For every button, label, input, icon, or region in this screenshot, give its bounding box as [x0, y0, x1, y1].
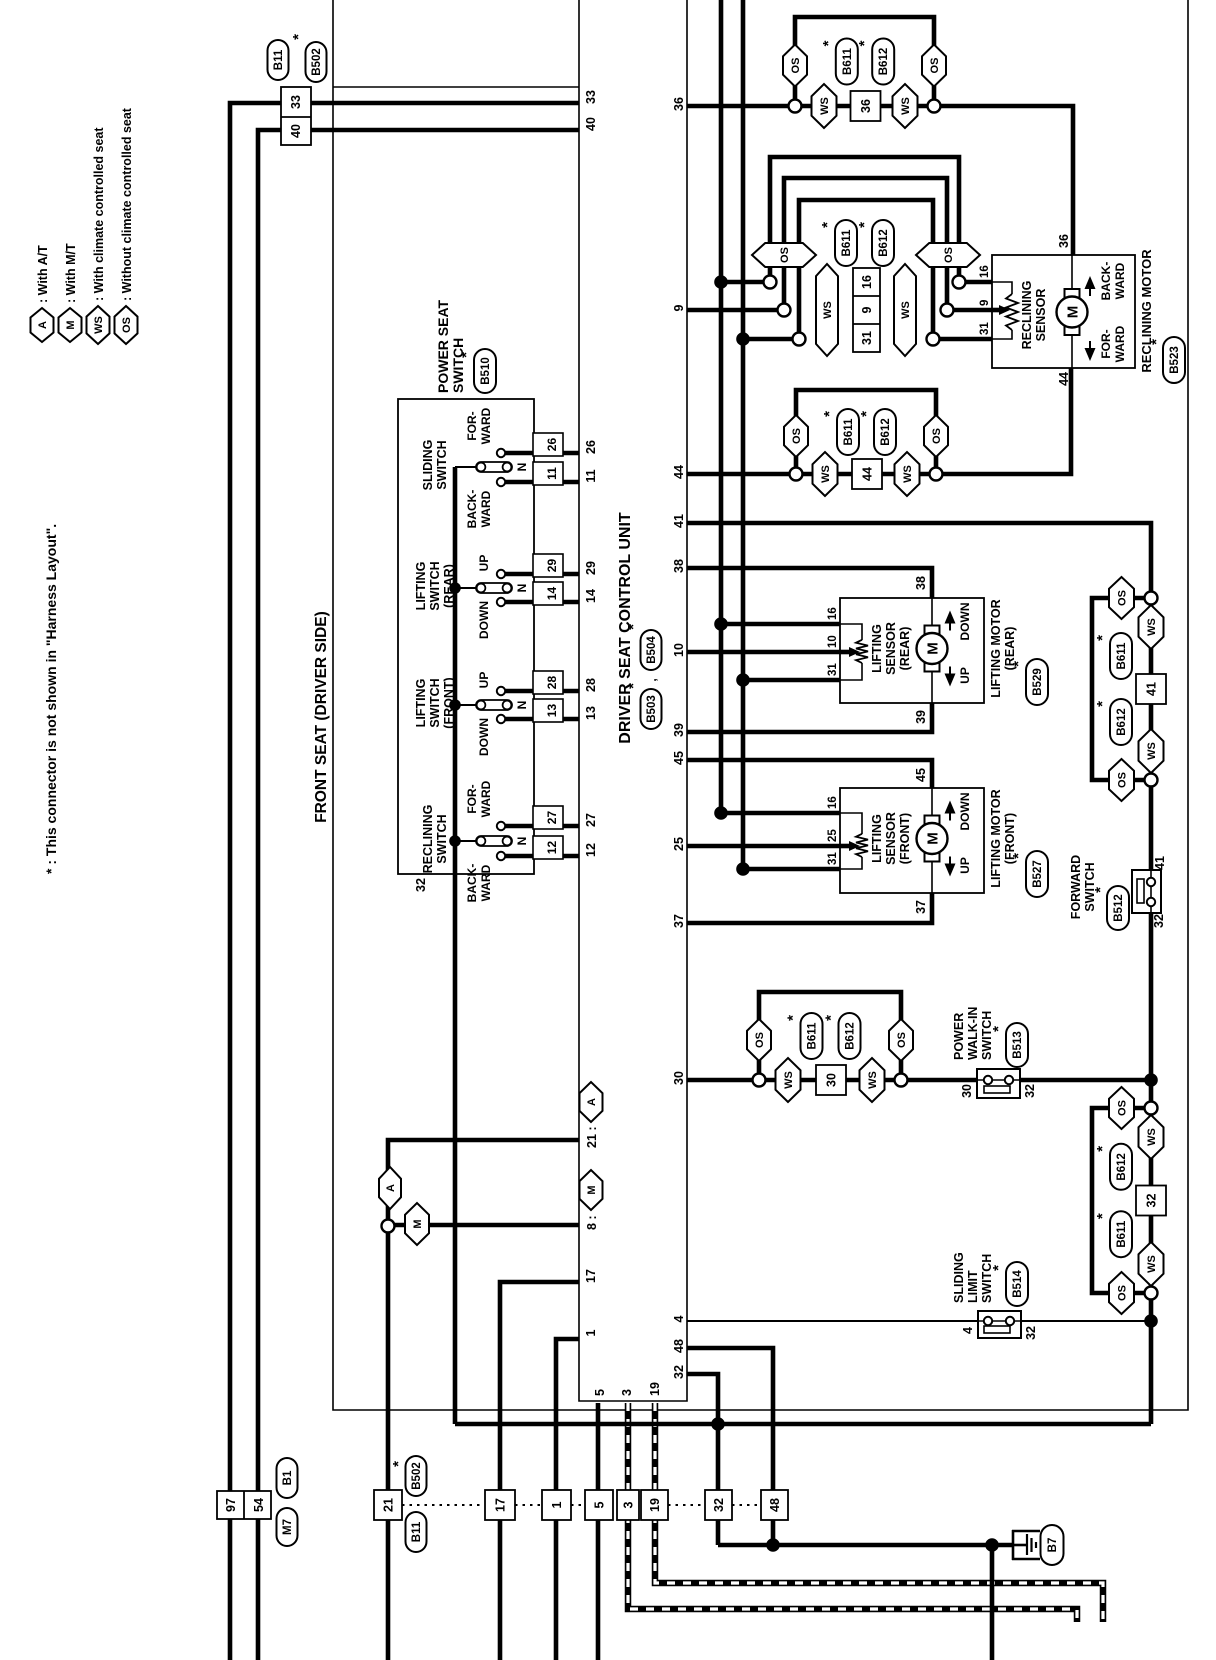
junction dot 31 lifting rear: [736, 673, 750, 687]
svg-text:LIFTING: LIFTING: [414, 562, 428, 611]
chain 44 WS hexagon lower: [895, 452, 920, 496]
chain 30 WS hexagon upper: [776, 1058, 801, 1102]
lifting front up arrow: [945, 857, 956, 877]
svg-text:DOWN: DOWN: [477, 601, 491, 639]
pin 27 label (top edge): [584, 813, 598, 827]
junction dot 31 lifting front: [736, 862, 750, 876]
connector B527: [1010, 851, 1048, 897]
chain 30 junction circle lower: [895, 1074, 908, 1087]
label POWER WALK-IN SWITCH: [952, 1007, 994, 1060]
svg-text:SWITCH: SWITCH: [980, 1011, 994, 1060]
svg-text:13: 13: [545, 704, 559, 718]
svg-text:WS: WS: [93, 316, 105, 334]
chain 44 junction circle lower: [930, 468, 943, 481]
switch ground bus vertical: [455, 1422, 1151, 1427]
svg-text:25: 25: [672, 837, 686, 851]
svg-text:A: A: [37, 321, 49, 329]
svg-text:1: 1: [584, 1329, 598, 1336]
svg-text:WS: WS: [822, 301, 834, 319]
svg-text:25: 25: [827, 829, 839, 842]
svg-text:BACK-: BACK-: [1099, 262, 1113, 301]
svg-text:FORWARD: FORWARD: [1069, 855, 1083, 919]
lifting rear sensor bracket and potentiometer: [840, 624, 862, 680]
svg-text:,: ,: [645, 678, 659, 681]
svg-text:30: 30: [672, 1071, 686, 1085]
lifting front motor feed wires: [931, 788, 933, 893]
svg-text:16: 16: [827, 796, 839, 809]
svg-text:B611: B611: [1116, 642, 1128, 669]
connector box 21: [374, 1490, 402, 1520]
wire pin 9 upper: [687, 308, 784, 313]
reclining switch pivot stem: [455, 840, 478, 842]
label sliding switch FOR-WARD: [465, 407, 493, 444]
front seat (driver side) box: [333, 0, 1188, 1410]
legend symbol M: [59, 308, 82, 342]
connector B503: [625, 683, 662, 729]
wire 31 reclining lower: [933, 337, 992, 342]
wire pin 44 from reclining motor: [687, 368, 1071, 474]
reclining switch wire pin 12: [505, 854, 579, 859]
svg-text:97: 97: [224, 1498, 238, 1512]
chain 36 junction circle lower: [928, 100, 941, 113]
lifting rear motor feed wires: [931, 598, 933, 703]
svg-text:*: *: [820, 40, 837, 46]
svg-text:28: 28: [584, 678, 598, 692]
svg-text:*: *: [625, 624, 642, 630]
svg-text:LIFTING MOTOR: LIFTING MOTOR: [989, 599, 1003, 697]
svg-text:*: *: [1148, 339, 1165, 345]
svg-text:33: 33: [584, 90, 598, 104]
pin 17 label (top edge): [584, 1269, 598, 1283]
chain 36 connector B612: [856, 39, 894, 85]
bus wire 16 (sensor supply): [721, 0, 840, 813]
chain 32 OS hexagon right: [1109, 1087, 1134, 1129]
chain 44 OS hexagon lower: [924, 415, 948, 457]
svg-text:N: N: [515, 584, 529, 593]
svg-text:36: 36: [1057, 234, 1071, 248]
svg-text:*: *: [290, 34, 307, 40]
connector 33/40 cells (B11/B502): [281, 87, 311, 145]
label 9 at reclining sensor: [979, 300, 991, 306]
svg-text:SENSOR: SENSOR: [884, 622, 898, 675]
svg-text:28: 28: [545, 676, 559, 690]
label POWER SEAT SWITCH: [435, 299, 466, 393]
svg-text:4: 4: [672, 1315, 686, 1322]
lifting rear motor M: [917, 626, 948, 672]
label FRONT SEAT (DRIVER SIDE): [313, 611, 330, 823]
junction circle wire 21/8: [382, 1220, 395, 1233]
svg-text:32: 32: [1023, 1084, 1037, 1098]
svg-text:44: 44: [1057, 372, 1071, 386]
svg-text:WARD: WARD: [479, 864, 493, 901]
wire pin 45: [687, 760, 932, 788]
junction dot 4/spine: [1144, 1314, 1158, 1328]
svg-text:OS: OS: [790, 58, 802, 74]
connector B7: [1041, 1525, 1064, 1565]
svg-text:BACK-: BACK-: [465, 864, 479, 903]
svg-text:RECLINING: RECLINING: [421, 805, 435, 874]
reclining backward arrow: [1085, 276, 1096, 296]
junction dot 16 lifting rear: [714, 617, 728, 631]
chain 41 pin cell 41: [1136, 674, 1166, 704]
sliding limit switch B514: [978, 1311, 1021, 1338]
chain 41 WS hexagon right: [1139, 605, 1164, 649]
chain 44 connector B612: [858, 409, 896, 455]
shielded wire pin 19: [655, 1403, 1103, 1622]
lifting front wiper arrow: [849, 841, 860, 851]
svg-text:WS: WS: [900, 97, 912, 115]
svg-text:4: 4: [961, 1327, 975, 1334]
svg-text:(FRONT): (FRONT): [898, 813, 912, 864]
chain 32 OS bypass wire: [1092, 1108, 1151, 1293]
label 45 at lifting motor front: [914, 768, 928, 782]
condition hexagon M at pin 8: [580, 1170, 603, 1210]
lifting rear wiper arrow: [849, 647, 860, 657]
svg-text:*: *: [1092, 887, 1109, 893]
svg-text:WARD: WARD: [479, 780, 493, 817]
legend symbol A: [31, 308, 54, 342]
chain 41 connector B611: [1094, 633, 1132, 679]
label 25 at lifting sensor front: [827, 829, 839, 842]
svg-text:OS: OS: [1117, 590, 1129, 606]
lifting switch front contact DOWN: [497, 715, 505, 723]
wire pin 25: [687, 844, 840, 849]
reclining sensor bracket and potentiometer: [992, 282, 1012, 339]
svg-text:WS: WS: [900, 301, 912, 319]
reclining junction circle upper x1378: [764, 276, 777, 289]
connector B513: [990, 1023, 1028, 1067]
driver seat control unit box: [579, 0, 687, 1401]
svg-text:29: 29: [545, 559, 559, 573]
lifting front box: [840, 788, 984, 893]
reclining pin cells 31/9/16: [853, 268, 880, 352]
wire pin 37: [687, 893, 932, 923]
reclining connector B612: [856, 220, 894, 266]
svg-text:WS: WS: [1146, 618, 1158, 636]
connector box 5: [585, 1490, 613, 1520]
wire 31 reclining upper: [743, 337, 799, 342]
pin 32 label at sliding limit switch: [1024, 1326, 1038, 1340]
wire pin 21 (A/T): [388, 1140, 579, 1660]
svg-text:LIFTING: LIFTING: [870, 624, 884, 673]
pin 44 label (bottom edge): [672, 465, 686, 479]
wire pin 38: [687, 568, 932, 598]
lifting front sensor bracket and potentiometer: [840, 813, 862, 869]
svg-text:21: 21: [382, 1498, 396, 1512]
chain 36 OS hexagon lower: [922, 45, 946, 87]
pin 12 label (top edge): [584, 843, 598, 857]
pin 28 label (top edge): [584, 678, 598, 692]
svg-text:SWITCH: SWITCH: [980, 1254, 994, 1303]
svg-text:14: 14: [584, 589, 598, 603]
svg-text:B7: B7: [1047, 1538, 1059, 1553]
wire 31 lifting rear: [743, 678, 840, 683]
lifting front wiper wire: [840, 844, 850, 849]
lifting rear label UP: [958, 667, 972, 684]
svg-text:38: 38: [672, 559, 686, 573]
label lifting switch front title: [414, 677, 456, 728]
pin 30 label at walk-in switch: [960, 1084, 974, 1098]
svg-text:*: *: [990, 1026, 1007, 1032]
chain 30 OS bypass wire: [759, 992, 901, 1080]
svg-text:A: A: [586, 1098, 598, 1106]
svg-text:WS: WS: [1146, 1255, 1158, 1273]
chain 44 connector B611: [821, 409, 859, 455]
chain 32 junction circle left: [1145, 1287, 1158, 1300]
svg-text:SWITCH: SWITCH: [450, 338, 466, 393]
pin 41 label (bottom edge): [672, 514, 686, 528]
svg-text:SWITCH: SWITCH: [435, 814, 449, 863]
svg-text:: With M/T: : With M/T: [64, 243, 78, 303]
svg-text:OS: OS: [1117, 1100, 1129, 1116]
label LIFTING MOTOR (REAR): [989, 599, 1017, 697]
svg-text:27: 27: [545, 811, 559, 825]
lifting switch rear label N: [515, 584, 529, 593]
note: asterisk connector note: [43, 524, 59, 874]
connector box 17: [485, 1490, 515, 1520]
svg-text:UP: UP: [477, 672, 491, 689]
label lifting switch front UP: [477, 672, 491, 689]
svg-text:WS: WS: [1146, 1128, 1158, 1146]
reclining switch wire pin 27: [505, 824, 579, 829]
reclining junction circle upper x1350: [778, 304, 791, 317]
svg-text:LIFTING: LIFTING: [870, 814, 884, 863]
shielded wire pin 3: [628, 1403, 1077, 1622]
pin 4 label (bottom edge): [672, 1315, 686, 1322]
connector B502 (top): [290, 34, 327, 82]
svg-text:31: 31: [827, 852, 839, 865]
connector B512: [1092, 886, 1129, 930]
label 16 at reclining sensor: [979, 265, 991, 278]
svg-text:10: 10: [827, 635, 839, 648]
chain 41 connector B612: [1094, 699, 1132, 745]
svg-text:*: *: [1094, 1213, 1111, 1219]
pin 30 label (bottom edge): [672, 1071, 686, 1085]
svg-text:33: 33: [289, 95, 303, 109]
svg-text:11: 11: [584, 469, 598, 482]
svg-text:SLIDING: SLIDING: [421, 440, 435, 491]
svg-text:10: 10: [672, 643, 686, 657]
svg-text:*: *: [1010, 661, 1027, 667]
lifting switch front pin cells 28/13: [533, 671, 563, 722]
wire pin 36 to reclining motor: [687, 106, 1073, 255]
chain 30 OS hexagon upper: [747, 1019, 771, 1061]
svg-text:LIFTING: LIFTING: [414, 679, 428, 728]
svg-text:* : This connector is not show: * : This connector is not shown in "Harn…: [43, 524, 59, 874]
dotted links between connectors: [402, 1504, 761, 1506]
reclining junction circle lower x1321: [927, 333, 940, 346]
forward switch B512: [1132, 870, 1161, 913]
lifting switch front contact UP: [497, 687, 505, 695]
svg-text:*: *: [1094, 701, 1111, 707]
svg-text:*: *: [1094, 635, 1111, 641]
svg-text:B1: B1: [282, 1470, 294, 1485]
pin 9 label (bottom edge): [672, 304, 686, 311]
wire 16 reclining lower: [959, 280, 992, 285]
svg-text:44: 44: [861, 467, 875, 481]
svg-text:32: 32: [1024, 1326, 1038, 1340]
pin 5 label (left edge): [593, 1389, 607, 1396]
svg-text:*: *: [1094, 1146, 1111, 1152]
wire pin 10: [687, 650, 840, 655]
bus wire 31 (sensor return): [743, 0, 840, 869]
svg-text:B502: B502: [411, 1462, 423, 1490]
comma between B503 B504: [645, 678, 659, 681]
pin 36 label (bottom edge): [672, 97, 686, 111]
svg-text:5: 5: [593, 1501, 607, 1508]
pin 11 label (top edge): [584, 469, 598, 482]
chain 30 OS hexagon lower: [889, 1019, 913, 1061]
connector B11 (at 21): [406, 1512, 427, 1552]
svg-text:B523: B523: [1169, 346, 1181, 374]
svg-text:9: 9: [979, 300, 991, 306]
pin 37 label (bottom edge): [672, 914, 686, 928]
pin 40 label (top edge): [584, 117, 598, 131]
chain 44 pin cell 44: [852, 459, 882, 489]
power seat switch box: [398, 399, 534, 874]
lifting front label DOWN: [958, 793, 972, 831]
chain 32 OS hexagon left: [1109, 1272, 1134, 1314]
svg-text:17: 17: [584, 1269, 598, 1283]
chain 36 connector B611: [820, 39, 858, 85]
label 31 at lifting sensor rear: [827, 663, 839, 676]
svg-text:11: 11: [545, 467, 559, 480]
label 31 at reclining sensor: [979, 322, 991, 335]
svg-text:WALK-IN: WALK-IN: [966, 1007, 980, 1060]
reclining sensor wiper wire: [992, 308, 1000, 313]
wire pin 30: [687, 1078, 977, 1083]
label lifting switch rear UP: [477, 555, 491, 572]
svg-text:*: *: [390, 1461, 407, 1467]
svg-text:OS: OS: [754, 1032, 766, 1048]
label 16 at lifting sensor front: [827, 796, 839, 809]
pin 19 label (left edge): [648, 1382, 662, 1396]
connector box 32: [705, 1490, 732, 1520]
svg-text:B611: B611: [1116, 1220, 1128, 1247]
svg-text:OS: OS: [121, 317, 133, 333]
svg-text:OS: OS: [1117, 1285, 1129, 1301]
svg-text:M: M: [412, 1219, 424, 1228]
lifting switch front wire pin 28: [505, 689, 579, 694]
svg-text:WARD: WARD: [1113, 325, 1127, 362]
ground branch to left edge: [990, 1545, 995, 1660]
svg-text:SWITCH: SWITCH: [428, 678, 442, 727]
svg-text:OS: OS: [779, 247, 791, 263]
lifting rear box: [840, 598, 984, 703]
sliding switch lever: [476, 462, 512, 472]
chain 32 connector B611: [1094, 1211, 1132, 1257]
pin 3 label (left edge): [620, 1389, 634, 1396]
svg-text:POWER: POWER: [952, 1013, 966, 1060]
chain 44 junction circle upper: [790, 468, 803, 481]
reclining junction circle lower x1378: [953, 276, 966, 289]
reclining switch contact BACK-WARD: [497, 852, 505, 860]
svg-text:32: 32: [1152, 914, 1166, 928]
svg-text:B503: B503: [646, 695, 658, 723]
pin 36 label at reclining motor: [1057, 234, 1071, 248]
lifting rear down arrow: [945, 611, 956, 631]
svg-text:32: 32: [672, 1365, 686, 1379]
chain 36 WS hexagon upper: [812, 84, 837, 128]
label sliding switch BACK-WARD: [465, 490, 493, 529]
svg-text:*: *: [856, 40, 873, 46]
svg-text:48: 48: [672, 1339, 686, 1353]
svg-text:(FRONT): (FRONT): [442, 677, 456, 728]
svg-text:BACK-: BACK-: [465, 490, 479, 529]
label BACK-WARD: [1099, 262, 1127, 301]
lifting rear resistor: [856, 640, 868, 663]
label LIFTING SENSOR (REAR): [870, 622, 912, 675]
legend text A: [36, 245, 50, 303]
label LIFTING SENSOR (FRONT): [870, 812, 912, 865]
lifting rear up arrow: [945, 667, 956, 687]
connector B514: [990, 1262, 1028, 1306]
svg-text:B611: B611: [841, 229, 853, 256]
lifting switch front label N: [515, 701, 529, 710]
svg-text:B612: B612: [845, 1022, 857, 1050]
legend text WS: [92, 127, 106, 301]
svg-text:41: 41: [672, 514, 686, 528]
svg-text:SWITCH: SWITCH: [435, 440, 449, 489]
wire pin 48 to ground: [687, 1348, 773, 1545]
svg-text:31: 31: [827, 663, 839, 676]
junction dot 32-bus/ground: [711, 1417, 725, 1431]
svg-text:B612: B612: [1116, 1153, 1128, 1181]
svg-text:N: N: [515, 463, 529, 472]
sliding switch contact FOR-WARD: [497, 449, 505, 457]
svg-text:M: M: [925, 642, 942, 655]
label reclining switch FOR-WARD: [465, 780, 493, 817]
svg-text:*: *: [990, 1265, 1007, 1271]
chain 30 connector B611: [785, 1013, 823, 1059]
chain 41 WS hexagon left: [1139, 729, 1164, 773]
label 32 at switch bus: [414, 878, 428, 892]
junction dot 16 reclining: [714, 275, 728, 289]
reclining sensor resistor: [1006, 294, 1018, 330]
connector B1: [277, 1458, 298, 1498]
condition hexagon M on wire 8: [405, 1203, 429, 1245]
wire 4 below sliding limit switch: [1021, 1320, 1151, 1322]
pin 32 label (bottom edge): [672, 1365, 686, 1379]
svg-text:9: 9: [672, 304, 686, 311]
svg-text:21 :: 21 :: [585, 1126, 599, 1148]
chain 30 pin cell 30: [816, 1065, 846, 1095]
svg-text:40: 40: [584, 117, 598, 131]
reclining WS hexagon upper: [816, 264, 838, 356]
svg-text:FOR-: FOR-: [465, 784, 479, 813]
sliding switch pin cells 26/11: [533, 433, 563, 485]
svg-text:45: 45: [914, 768, 928, 782]
label 37 at lifting motor front: [914, 900, 928, 914]
svg-text:(REAR): (REAR): [442, 564, 456, 608]
svg-text:3: 3: [620, 1389, 634, 1396]
svg-text:*: *: [819, 222, 836, 228]
reclining switch pivot dot: [449, 835, 461, 847]
svg-text:B510: B510: [480, 357, 492, 385]
svg-text:36: 36: [672, 97, 686, 111]
svg-text:: With climate controlled seat: : With climate controlled seat: [92, 127, 106, 301]
lifting rear wiper wire: [840, 650, 850, 655]
svg-text:N: N: [515, 837, 529, 846]
pin 26 label (top edge): [584, 440, 598, 454]
chain 36 OS hexagon upper: [783, 45, 807, 87]
svg-text:5: 5: [593, 1389, 607, 1396]
connector B523: [1148, 337, 1185, 383]
connector box 48: [761, 1490, 788, 1520]
svg-text:37: 37: [914, 900, 928, 914]
svg-text:17: 17: [494, 1498, 508, 1512]
chain 32 junction circle right: [1145, 1102, 1158, 1115]
